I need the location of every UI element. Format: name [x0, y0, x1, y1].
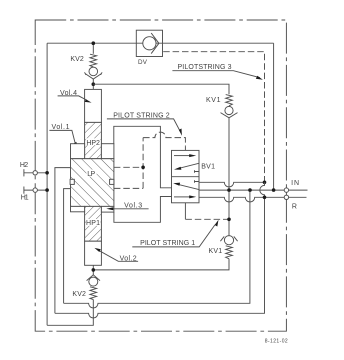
svg-text:KV2: KV2 [70, 56, 83, 63]
wire wrap3 bottom [47, 300, 93, 326]
wire dashed pilot stub upper [114, 166, 143, 168]
wire R line [199, 197, 307, 202]
wire dashed pilot stub lower [114, 187, 143, 189]
svg-text:LP: LP [87, 171, 95, 178]
valve BV1 [172, 146, 200, 219]
boundary dash-dot enclosure [35, 20, 286, 331]
pin closed port lower [195, 180, 200, 183]
wire pilotstring3 dashed [163, 52, 264, 183]
step right below LP [101, 206, 114, 212]
check valve KV2 top [85, 43, 103, 89]
node junction top supply [92, 41, 96, 45]
port H1 [24, 187, 47, 194]
wire IN line [199, 189, 308, 191]
label PILOTSTRING 3 [172, 64, 263, 80]
node dashed junction [141, 166, 145, 170]
label Vol.4 [58, 90, 92, 103]
svg-text:HP1: HP1 [86, 220, 100, 227]
port notch LP left [70, 179, 74, 184]
svg-text:PILOT STRING 2: PILOT STRING 2 [113, 112, 170, 119]
check valve KV1 bottom [93, 236, 237, 270]
wire pilot line to KV1 top [93, 84, 229, 94]
wire dashed pilot riser [142, 138, 144, 189]
svg-text:8-121-02: 8-121-02 [265, 339, 288, 345]
wire lower chamber feed left [64, 189, 71, 304]
svg-text:IN: IN [291, 180, 299, 187]
node H1 junction [45, 188, 49, 192]
step left below LP [71, 206, 85, 211]
arrow flow top-diagonal [179, 163, 199, 168]
node IN-wrap1 [248, 188, 252, 192]
frame Vol.3 loop to BV1 [114, 197, 172, 223]
label LP [86, 170, 96, 177]
svg-text:KV1: KV1 [209, 248, 223, 255]
svg-text:H1: H1 [21, 195, 29, 202]
port R [284, 195, 288, 199]
wire riser hop over IN [260, 182, 265, 197]
svg-text:KV1: KV1 [206, 97, 221, 104]
wire main supply line top [47, 42, 136, 44]
label PILOT STRING 1 [132, 220, 218, 247]
svg-text:PILOT STRING 1: PILOT STRING 1 [140, 240, 195, 247]
port notch LP right [110, 179, 114, 184]
node IN-KV1 [227, 188, 231, 192]
spool LP hatched [71, 159, 114, 207]
arrow flow bottom-diagonal [178, 184, 199, 189]
node junction under KV2 [92, 82, 96, 86]
port IN [284, 188, 288, 192]
port H2 [24, 169, 47, 176]
wire wrap1 IN loop [64, 190, 250, 308]
frame pilot rect above spool [114, 126, 172, 188]
wire wrap2 R loop [55, 197, 265, 318]
svg-text:H2: H2 [20, 162, 28, 169]
label HP1 [86, 219, 101, 226]
svg-text:PILOTSTRING 3: PILOTSTRING 3 [178, 64, 232, 71]
svg-text:KV2: KV2 [72, 291, 86, 298]
wire DV output line [163, 42, 274, 44]
label PILOT STRING 2 [107, 112, 182, 135]
arrow flow bottom-right [174, 196, 190, 198]
label Vol.3 [106, 203, 148, 211]
node R junction [263, 196, 267, 200]
node line A end [263, 181, 267, 185]
chamber Vol.2 [85, 241, 102, 265]
piston HP2 hatched [85, 122, 102, 158]
wire line A pilot to dashed riser [199, 182, 265, 187]
svg-text:R: R [292, 203, 297, 210]
svg-text:Vol.1: Vol.1 [52, 124, 70, 131]
node H2 junction [45, 171, 49, 175]
arrow flow top-right [174, 155, 190, 157]
shoulder right of HP2 [101, 144, 114, 159]
piston HP1 hatched [85, 206, 102, 241]
svg-text:BV1: BV1 [201, 163, 215, 170]
wire DV output drop to IN [273, 43, 275, 190]
pin closed port upper [195, 170, 200, 173]
check valve KV1 top [221, 95, 238, 236]
label HP2 [86, 138, 101, 145]
check valve KV2 bottom [87, 265, 100, 299]
valve DV [136, 30, 162, 56]
wire dashed pilot top run with hop [143, 132, 185, 146]
chamber Vol.4 [85, 89, 102, 122]
node pilot tap [227, 218, 231, 222]
node IN-DV [272, 188, 276, 192]
svg-text:HP2: HP2 [86, 140, 100, 147]
shoulder left of HP2 [71, 144, 85, 159]
node Vol.2 outlet [92, 268, 96, 272]
label Vol.2 [94, 248, 138, 263]
label Vol.1 [49, 124, 78, 149]
svg-text:DV: DV [138, 59, 148, 66]
wire left supply vertical [46, 43, 48, 325]
wire dashed pilot BV1 bottom [185, 218, 229, 220]
wire upper chamber feed left [55, 168, 71, 314]
